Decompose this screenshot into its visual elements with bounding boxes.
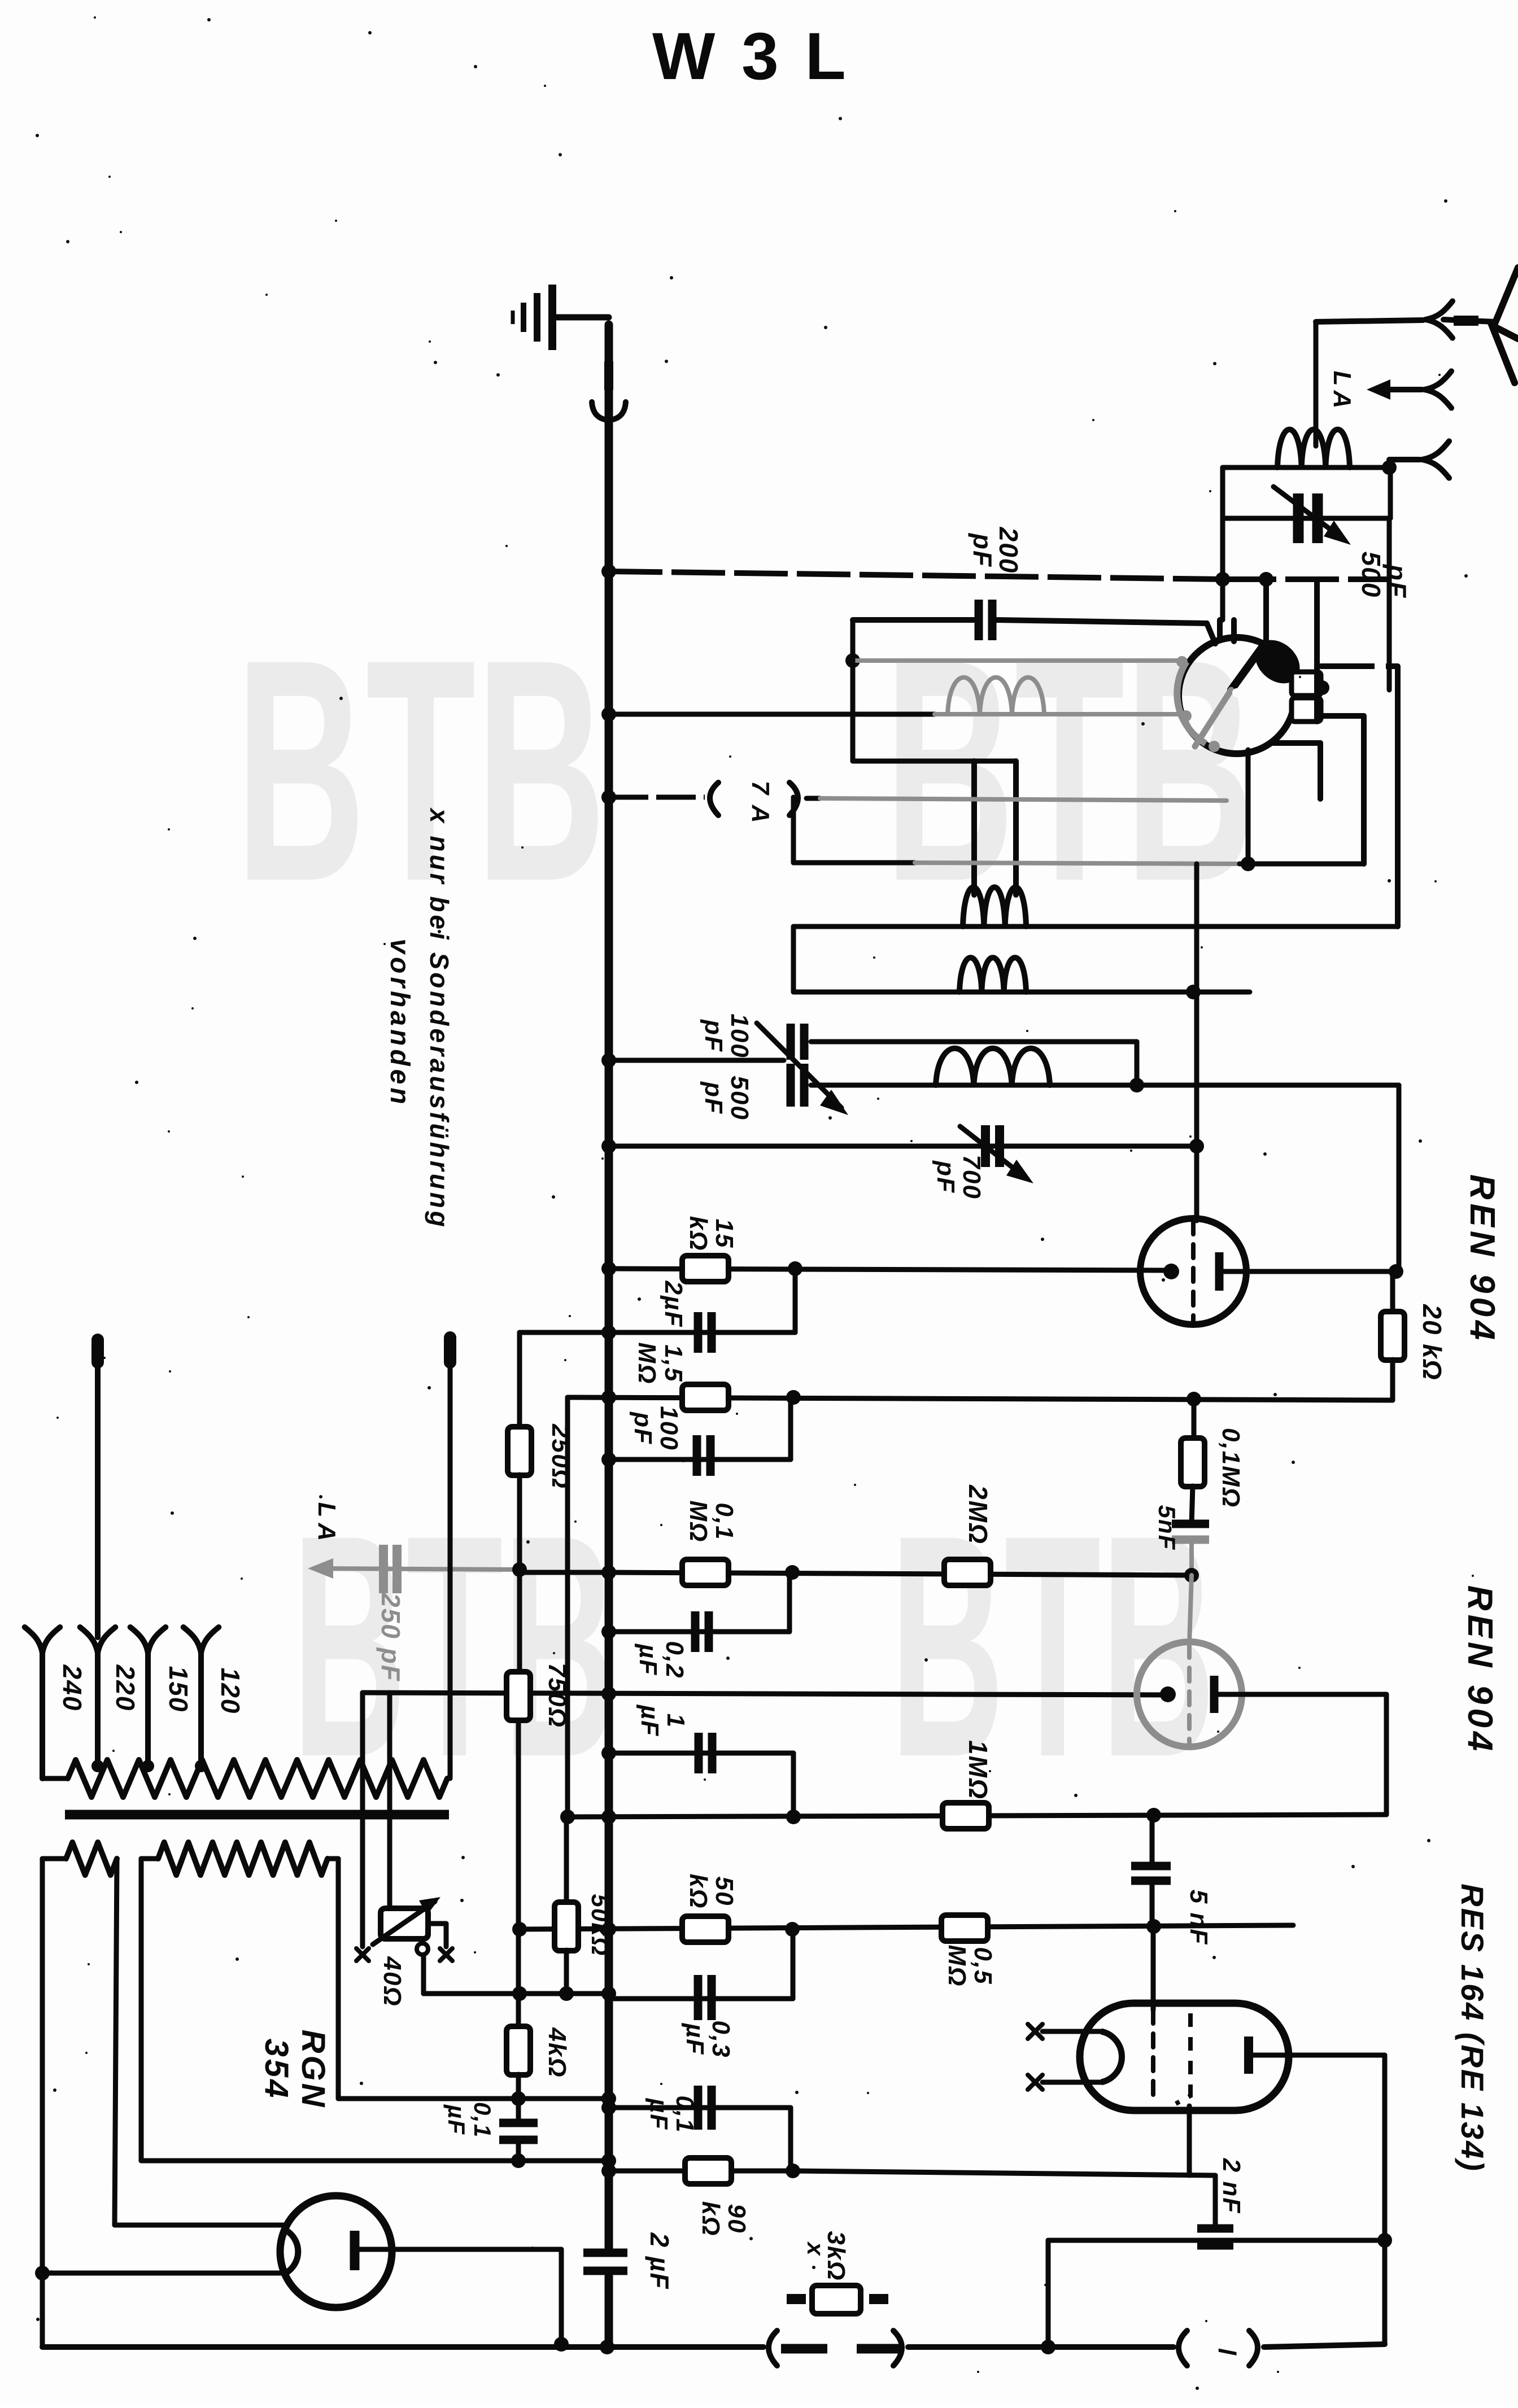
svg-text:pF: pF [700,1081,727,1115]
svg-text:REN 904: REN 904 [1460,1585,1499,1755]
svg-text:µF: µF [634,1643,662,1676]
svg-text:µF: µF [645,2097,673,2130]
svg-text:40Ω: 40Ω [378,1956,406,2007]
svg-text:µF: µF [443,2104,470,2135]
svg-text:3kΩ: 3kΩ [822,2231,850,2281]
svg-text:0,1: 0,1 [469,2102,496,2138]
svg-text:2µF: 2µF [660,1281,687,1328]
svg-text:50kΩ: 50kΩ [587,1894,613,1957]
svg-text:pF: pF [968,532,997,567]
svg-text:100: 100 [726,1013,753,1058]
svg-text:15: 15 [710,1219,738,1249]
svg-text:pF: pF [932,1160,959,1194]
svg-text:kΩ: kΩ [684,1874,712,1909]
svg-text:5nF: 5nF [1154,1505,1180,1551]
svg-text:kΩ: kΩ [697,2201,725,2237]
svg-text:20 kΩ: 20 kΩ [1417,1304,1447,1380]
svg-text:MΩ: MΩ [633,1342,661,1384]
svg-text:4kΩ: 4kΩ [543,2027,571,2078]
svg-text:l: l [1213,2348,1241,2356]
svg-text:MΩ: MΩ [684,1500,712,1542]
svg-text:50: 50 [710,1877,738,1907]
svg-text:1,5: 1,5 [660,1344,687,1382]
svg-text:0,5: 0,5 [969,1947,997,1985]
svg-text:x nur bei Sonderausführung: x nur bei Sonderausführung [425,807,454,1230]
svg-text:1MΩ: 1MΩ [963,1740,993,1800]
svg-text:700: 700 [958,1155,985,1199]
svg-text:250 pF: 250 pF [376,1592,405,1682]
svg-text:kΩ: kΩ [684,1216,712,1252]
svg-text:1: 1 [662,1714,690,1728]
svg-text:250Ω: 250Ω [547,1423,574,1489]
svg-text:150: 150 [164,1666,193,1713]
svg-text:BTB: BTB [235,593,606,947]
svg-text:0,1: 0,1 [671,2095,699,2133]
svg-text:0,1: 0,1 [710,1502,738,1540]
svg-text:7 A: 7 A [747,781,774,825]
svg-text:0,2: 0,2 [661,1641,688,1679]
svg-text:BTB: BTB [884,593,1255,947]
svg-text:120: 120 [216,1668,245,1715]
svg-text:0,3: 0,3 [707,2020,735,2058]
svg-text:RES 164 (RE 134): RES 164 (RE 134) [1455,1883,1490,2173]
svg-text:500: 500 [726,1076,753,1120]
svg-text:2 µF: 2 µF [645,2232,674,2290]
svg-text:90: 90 [723,2204,751,2234]
svg-text:pF: pF [700,1019,727,1052]
svg-text:REN 904: REN 904 [1463,1174,1502,1344]
svg-text:pF: pF [629,1411,657,1445]
svg-text:µF: µF [636,1704,664,1737]
svg-text:µF: µF [681,2022,709,2055]
svg-text:LA: LA [313,1502,341,1547]
svg-text:220: 220 [111,1664,140,1712]
svg-text:100: 100 [655,1406,683,1450]
svg-text:240: 240 [58,1664,87,1712]
svg-text:5 nF: 5 nF [1185,1890,1212,1945]
svg-text:200: 200 [994,527,1023,574]
svg-text:2 nF: 2 nF [1218,2158,1245,2214]
svg-text:W 3 L: W 3 L [652,19,850,94]
svg-text:LA: LA [1328,371,1356,413]
svg-text:354: 354 [258,2039,295,2100]
svg-text:500: 500 [1356,552,1386,598]
svg-text:vorhanden: vorhanden [385,938,415,1107]
svg-text:2MΩ: 2MΩ [963,1484,993,1545]
svg-text:RGN: RGN [295,2030,331,2109]
svg-text:MΩ: MΩ [943,1944,971,1987]
svg-text:0,1MΩ: 0,1MΩ [1217,1428,1245,1508]
